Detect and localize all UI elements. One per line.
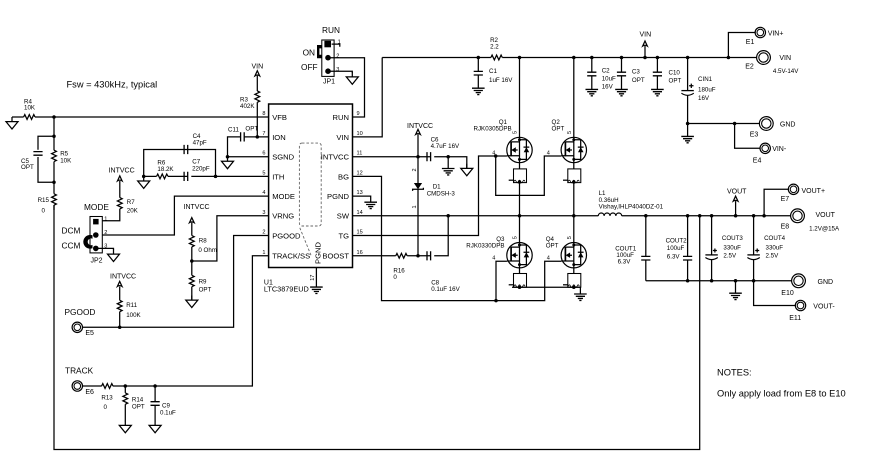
svg-text:16V: 16V	[602, 84, 614, 91]
wire INTVCC row	[353, 157, 467, 169]
net label VIN (rail)	[640, 31, 652, 57]
svg-text:OPT: OPT	[245, 126, 258, 133]
wire feedback loop (left, bottom, right to VOUT)	[54, 205, 700, 450]
svg-text:0: 0	[42, 208, 46, 215]
svg-text:8: 8	[262, 111, 265, 117]
svg-text:12: 12	[357, 170, 363, 176]
svg-text:13: 13	[357, 190, 363, 196]
node A (VFB divider)	[52, 115, 56, 119]
wire BG to bottom gates	[353, 176, 562, 300]
ground (R9)	[186, 296, 198, 308]
svg-text:4.7uF 16V: 4.7uF 16V	[431, 143, 460, 150]
ground (JP2)	[108, 250, 120, 262]
capacitor C7	[184, 158, 210, 181]
node E1 branch	[727, 56, 731, 60]
svg-text:180uF: 180uF	[698, 87, 716, 94]
node Q1/Q3 SW	[518, 214, 522, 218]
svg-text:BG: BG	[338, 172, 349, 181]
resistor R7	[102, 181, 138, 221]
capacitor COUT3 (polarized)	[705, 216, 743, 281]
node C6 gnd	[446, 155, 450, 159]
svg-text:E5: E5	[85, 330, 94, 337]
svg-text:INTVCC: INTVCC	[110, 274, 136, 281]
svg-text:E2: E2	[745, 63, 754, 70]
node gnd stem	[734, 279, 738, 283]
node Q2/Q4 SW	[572, 214, 576, 218]
svg-text:JP1: JP1	[323, 79, 335, 86]
svg-text:C3: C3	[632, 69, 640, 76]
svg-text:OPT: OPT	[632, 77, 645, 84]
wire VRNG row	[192, 216, 269, 261]
ground (C9)	[149, 421, 161, 433]
terminal E7	[781, 184, 825, 203]
resistor R11	[117, 287, 141, 328]
svg-text:BOOST: BOOST	[322, 252, 349, 261]
svg-text:6: 6	[262, 151, 265, 157]
svg-text:1: 1	[104, 216, 107, 222]
wire JP1 pin3 to ground	[328, 71, 352, 73]
svg-text:INTVCC: INTVCC	[109, 168, 135, 175]
wire VFB row	[35, 116, 269, 118]
svg-text:2: 2	[104, 230, 107, 236]
svg-text:R11: R11	[126, 302, 137, 309]
terminal E6	[72, 381, 94, 396]
ground (power stage)	[574, 287, 587, 300]
node ITH	[214, 175, 218, 179]
svg-text:E7: E7	[781, 196, 790, 203]
svg-text:E11: E11	[789, 315, 801, 322]
svg-text:9: 9	[357, 111, 360, 117]
resistor R14	[123, 386, 145, 421]
svg-text:RJK0305DPB: RJK0305DPB	[474, 126, 512, 133]
capacitor C8	[427, 251, 461, 293]
node COUT2 top	[686, 214, 690, 218]
ground (comp network)	[138, 176, 150, 188]
terminal E5	[72, 322, 94, 337]
resistor R3	[240, 91, 260, 110]
wire to E4	[735, 124, 761, 149]
wire input GND row	[688, 123, 760, 125]
wire ION row	[228, 137, 269, 157]
svg-text:7: 7	[262, 131, 265, 137]
svg-text:PGND: PGND	[327, 192, 349, 201]
svg-text:330uF: 330uF	[723, 244, 741, 251]
ground (CIN1)	[681, 124, 694, 143]
node CIN1	[686, 56, 690, 60]
node comp left	[142, 175, 146, 179]
resistor R2	[490, 37, 502, 60]
svg-text:R15: R15	[38, 197, 50, 204]
ground (C10)	[651, 89, 664, 95]
node COUT3 top	[710, 214, 714, 218]
capacitor C2	[587, 58, 616, 91]
pin number labels U1 left	[262, 111, 265, 256]
wire to E1	[728, 33, 755, 58]
svg-text:VIN: VIN	[336, 133, 349, 142]
pin number labels U1 right	[357, 111, 363, 256]
node E7 branch	[762, 214, 766, 218]
svg-text:PGOOD: PGOOD	[65, 307, 96, 317]
capacitor C9	[151, 386, 177, 421]
inductor L1	[598, 190, 663, 216]
svg-text:INTVCC: INTVCC	[407, 123, 433, 130]
svg-text:E3: E3	[750, 132, 759, 139]
transistor Q4 OPT	[546, 216, 587, 274]
node CIN1/GND	[686, 122, 690, 126]
capacitor CIN1 (polarized)	[681, 58, 715, 124]
svg-text:R5: R5	[60, 151, 68, 158]
wire Q3 gate riser	[496, 261, 507, 300]
svg-text:RUN: RUN	[322, 25, 340, 35]
svg-text:2: 2	[412, 168, 418, 171]
svg-text:10K: 10K	[24, 105, 36, 112]
svg-text:5: 5	[513, 131, 519, 134]
transistor Q3 RJK0330DPB	[466, 216, 532, 274]
svg-text:JP2: JP2	[91, 257, 103, 264]
svg-text:6.3V: 6.3V	[667, 254, 681, 261]
resistor R9	[189, 261, 211, 300]
node INTVCC/D1	[416, 155, 420, 159]
svg-text:VOUT: VOUT	[816, 212, 836, 219]
svg-text:TRACK/SS: TRACK/SS	[272, 252, 310, 261]
node COUT4 top	[752, 214, 756, 218]
node C5/R5 top	[52, 134, 56, 138]
wire R3 to ION	[256, 102, 258, 137]
svg-text:330uF: 330uF	[766, 244, 784, 251]
capacitor C6	[427, 137, 460, 162]
svg-text:14: 14	[357, 210, 363, 216]
capacitor C5	[21, 136, 54, 182]
svg-text:220pF: 220pF	[192, 166, 210, 173]
wire PGND pin13	[353, 196, 371, 202]
svg-text:E8: E8	[781, 224, 790, 231]
node E11 branch	[752, 279, 756, 283]
package pad Q2	[563, 169, 581, 216]
svg-text:TG: TG	[338, 231, 349, 240]
svg-text:5: 5	[513, 236, 519, 239]
ground (C3)	[615, 89, 628, 95]
svg-text:PGND: PGND	[314, 242, 323, 264]
ground (R14)	[119, 421, 131, 433]
svg-text:C9: C9	[162, 403, 170, 410]
svg-text:15: 15	[357, 230, 363, 236]
svg-text:VIN: VIN	[779, 55, 791, 62]
node C2	[590, 56, 594, 60]
svg-text:GND: GND	[780, 121, 796, 128]
svg-text:COUT4: COUT4	[764, 235, 786, 242]
wire PGOOD net	[82, 236, 269, 328]
svg-text:E1: E1	[746, 39, 755, 46]
svg-text:2.2: 2.2	[490, 44, 499, 51]
ground (left of R4)	[6, 117, 18, 129]
svg-text:OPT: OPT	[21, 164, 34, 171]
svg-text:SW: SW	[337, 212, 350, 221]
svg-text:SGND: SGND	[272, 153, 294, 162]
node Q4 source	[572, 285, 576, 289]
node Q3 source	[518, 285, 522, 289]
wire TRACK net	[82, 256, 269, 386]
capacitor C3	[617, 58, 645, 90]
transistor Q1 RJK0305DPB	[474, 58, 533, 169]
terminal E1	[746, 27, 784, 46]
svg-text:VRNG: VRNG	[272, 212, 294, 221]
svg-text:LTC3879EUD: LTC3879EUD	[264, 285, 309, 294]
svg-text:C10: C10	[669, 69, 681, 76]
wire pin17 pad	[315, 268, 317, 288]
svg-text:R8: R8	[199, 238, 207, 245]
capacitor C10	[653, 58, 682, 90]
svg-text:1: 1	[262, 250, 265, 256]
terminal E2	[745, 51, 799, 75]
svg-text:GND: GND	[818, 279, 834, 286]
svg-text:C2: C2	[602, 67, 610, 74]
capacitor C4	[184, 133, 207, 154]
net label VOUT	[727, 189, 747, 216]
node C1	[477, 56, 481, 60]
resistor R4	[24, 98, 36, 119]
svg-text:VIN: VIN	[640, 31, 652, 38]
terminal E11	[789, 300, 835, 322]
wire comp network frame	[144, 150, 216, 177]
svg-text:PGOOD: PGOOD	[272, 231, 301, 240]
ground (pin17)	[310, 287, 323, 293]
node Q1 gate	[494, 154, 498, 158]
ground (C1)	[472, 88, 485, 94]
svg-text:402K: 402K	[240, 103, 255, 110]
wire ITH row	[216, 175, 269, 177]
svg-text:Fsw = 430kHz, typical: Fsw = 430kHz, typical	[67, 79, 158, 89]
wire VIN input rail	[382, 57, 757, 59]
capacitor COUT4 (polarized)	[747, 216, 785, 281]
svg-text:VFB: VFB	[272, 113, 287, 122]
svg-text:NOTES:: NOTES:	[717, 368, 752, 378]
svg-text:OPT: OPT	[199, 286, 212, 293]
resistor R6	[157, 159, 175, 178]
svg-text:E10: E10	[781, 290, 794, 297]
svg-text:OFF: OFF	[301, 62, 318, 72]
wire JP1 pin2 to RUN pin	[328, 58, 365, 117]
node R11/PGOOD	[118, 326, 122, 330]
node COUT2 bottom	[686, 279, 690, 283]
node VIN label (above R3)	[252, 63, 264, 76]
svg-text:4: 4	[492, 256, 495, 262]
resistor R15	[38, 182, 57, 214]
svg-text:RUN: RUN	[333, 113, 349, 122]
ground (C6 triangle)	[461, 164, 473, 176]
op-amp/IC U1 LTC3879EUD body	[269, 104, 353, 268]
svg-text:D1: D1	[433, 183, 441, 190]
wire VIN pin10 to rail	[353, 58, 383, 137]
svg-text:ITH: ITH	[272, 172, 284, 181]
jumper JP1	[301, 39, 341, 85]
node C8/SW	[446, 214, 450, 218]
resistor R8	[189, 223, 217, 261]
svg-text:17: 17	[310, 275, 316, 281]
svg-text:3: 3	[336, 67, 339, 73]
node VIN arrow	[643, 56, 647, 60]
package pad Q1	[509, 169, 527, 216]
svg-text:4: 4	[547, 256, 550, 262]
svg-text:2.5V: 2.5V	[723, 253, 737, 260]
node Q1 drain/rail	[518, 56, 522, 60]
svg-text:100uF: 100uF	[667, 245, 685, 252]
svg-text:0 Ohm: 0 Ohm	[198, 247, 217, 254]
wire SGND row	[228, 156, 269, 158]
svg-text:Only apply load from E8 to E10: Only apply load from E8 to E10	[717, 388, 846, 398]
terminal E4	[753, 143, 787, 165]
package pad Q4	[563, 274, 581, 288]
svg-text:5: 5	[262, 170, 265, 176]
svg-text:2: 2	[336, 53, 339, 59]
wire output GND rail	[646, 280, 792, 282]
capacitor C1	[474, 58, 514, 89]
ground (JP1)	[346, 72, 358, 84]
svg-text:6.3V: 6.3V	[618, 258, 632, 265]
svg-text:1.2V@15A: 1.2V@15A	[809, 225, 840, 232]
svg-text:C1: C1	[489, 68, 497, 75]
svg-text:1: 1	[338, 39, 341, 45]
diode D1 CMDSH-3	[412, 157, 455, 256]
wire node down to C5/R5 tee	[53, 117, 55, 136]
node R14/C9	[153, 384, 157, 388]
svg-text:1uF 16V: 1uF 16V	[489, 77, 513, 84]
capacitor C11	[228, 126, 258, 142]
svg-text:R14: R14	[132, 397, 144, 404]
svg-text:10: 10	[357, 131, 363, 137]
svg-text:R13: R13	[101, 394, 113, 401]
wire Q3/Q4 source rail	[512, 286, 581, 288]
svg-text:16V: 16V	[698, 95, 710, 102]
svg-text:18.2K: 18.2K	[157, 166, 174, 173]
svg-text:16: 16	[357, 250, 363, 256]
resistor R5	[52, 136, 72, 182]
svg-text:VOUT+: VOUT+	[802, 188, 826, 195]
svg-text:4: 4	[262, 190, 265, 196]
node Q2 drain/rail	[572, 56, 576, 60]
svg-text:VOUT: VOUT	[727, 189, 747, 196]
terminal E3	[750, 117, 796, 139]
svg-text:20K: 20K	[127, 208, 139, 215]
wire SW row	[353, 215, 599, 217]
svg-text:OPT: OPT	[669, 77, 682, 84]
node C3	[620, 56, 624, 60]
svg-text:OPT: OPT	[132, 404, 145, 411]
node R13/R14	[124, 384, 128, 388]
svg-text:COUT3: COUT3	[722, 235, 744, 242]
node SGND/C11	[226, 155, 230, 159]
jumper JP2	[62, 202, 110, 264]
svg-text:COUT2: COUT2	[666, 238, 688, 245]
svg-text:10uF: 10uF	[602, 76, 616, 83]
capacitor COUT2	[666, 216, 693, 281]
wire VOUT rail	[622, 215, 791, 217]
svg-text:100K: 100K	[126, 312, 141, 319]
wire R4 left	[12, 116, 24, 118]
U1 reference label	[264, 279, 309, 293]
ground (output)	[729, 281, 742, 300]
package pad Q3	[509, 274, 527, 288]
net label INTVCC (pin11)	[407, 123, 433, 157]
svg-text:VIN-: VIN-	[772, 146, 787, 153]
svg-text:2: 2	[262, 230, 265, 236]
node COUT3 bottom	[710, 279, 714, 283]
svg-text:E6: E6	[85, 389, 94, 396]
svg-text:E4: E4	[753, 158, 762, 165]
resistor R16	[393, 253, 407, 281]
node VRNG/R8/R9	[190, 259, 194, 263]
svg-text:MODE: MODE	[272, 192, 295, 201]
svg-text:3: 3	[262, 210, 265, 216]
svg-text:RJK0330DPB: RJK0330DPB	[466, 243, 504, 250]
terminal E10	[781, 274, 833, 297]
svg-text:CIN1: CIN1	[698, 76, 713, 83]
resistor R13	[101, 384, 113, 411]
node E4 branch	[733, 122, 737, 126]
node C10	[656, 56, 660, 60]
svg-text:5: 5	[567, 131, 573, 134]
svg-text:CCM: CCM	[62, 241, 81, 251]
wire gate jog Q1 to Q2	[496, 156, 562, 195]
svg-text:5: 5	[567, 236, 573, 239]
svg-text:DCM: DCM	[62, 225, 81, 235]
svg-text:OPT: OPT	[552, 126, 565, 133]
svg-text:4: 4	[492, 151, 495, 157]
svg-text:INTVCC: INTVCC	[321, 153, 350, 162]
node COUT1 top	[644, 214, 648, 218]
node INTVCC label (above R8)	[184, 204, 210, 222]
svg-text:VOUT-: VOUT-	[813, 304, 835, 311]
svg-text:C11: C11	[228, 127, 239, 134]
ground (SGND)	[222, 157, 234, 169]
capacitor COUT1	[615, 216, 650, 281]
svg-text:0.1uF 16V: 0.1uF 16V	[431, 286, 460, 293]
node R3/ION	[256, 135, 260, 139]
terminal E8	[781, 209, 840, 232]
node BG split	[494, 299, 498, 303]
wire to E7	[764, 189, 789, 216]
node D1/BOOST	[416, 254, 420, 257]
svg-text:R7: R7	[127, 199, 135, 206]
svg-text:4.5V-14V: 4.5V-14V	[773, 68, 799, 75]
svg-text:VIN: VIN	[252, 63, 264, 70]
svg-text:ON: ON	[303, 47, 315, 57]
ground (C6 bars)	[442, 157, 455, 175]
svg-text:2.5V: 2.5V	[766, 253, 780, 260]
U1 exposed pad (dashed) with PGND label	[299, 143, 322, 264]
wire MODE row	[102, 196, 268, 235]
node feedback tap	[698, 214, 702, 218]
svg-text:0.1uF: 0.1uF	[160, 410, 176, 417]
wire TG to top gates	[353, 156, 507, 236]
svg-text:R9: R9	[199, 278, 207, 285]
svg-text:OPT: OPT	[546, 243, 559, 250]
svg-text:47pF: 47pF	[193, 140, 207, 147]
svg-text:Vishay,IHLP4040DZ-01: Vishay,IHLP4040DZ-01	[599, 204, 664, 211]
ground (C2)	[586, 89, 599, 95]
svg-text:0: 0	[104, 404, 108, 411]
svg-text:MODE: MODE	[84, 202, 109, 212]
node R5/R15	[52, 180, 56, 184]
svg-text:10K: 10K	[60, 158, 72, 165]
svg-text:INTVCC: INTVCC	[184, 204, 210, 211]
svg-text:VIN+: VIN+	[768, 30, 784, 37]
ground (pin13 PGND)	[364, 202, 377, 208]
svg-text:CMDSH-3: CMDSH-3	[427, 191, 456, 198]
svg-text:0: 0	[393, 274, 397, 281]
svg-text:C7: C7	[192, 158, 200, 165]
node INTVCC label (above R11)	[110, 274, 136, 287]
wire JP2 pin3 to ground	[96, 248, 114, 250]
